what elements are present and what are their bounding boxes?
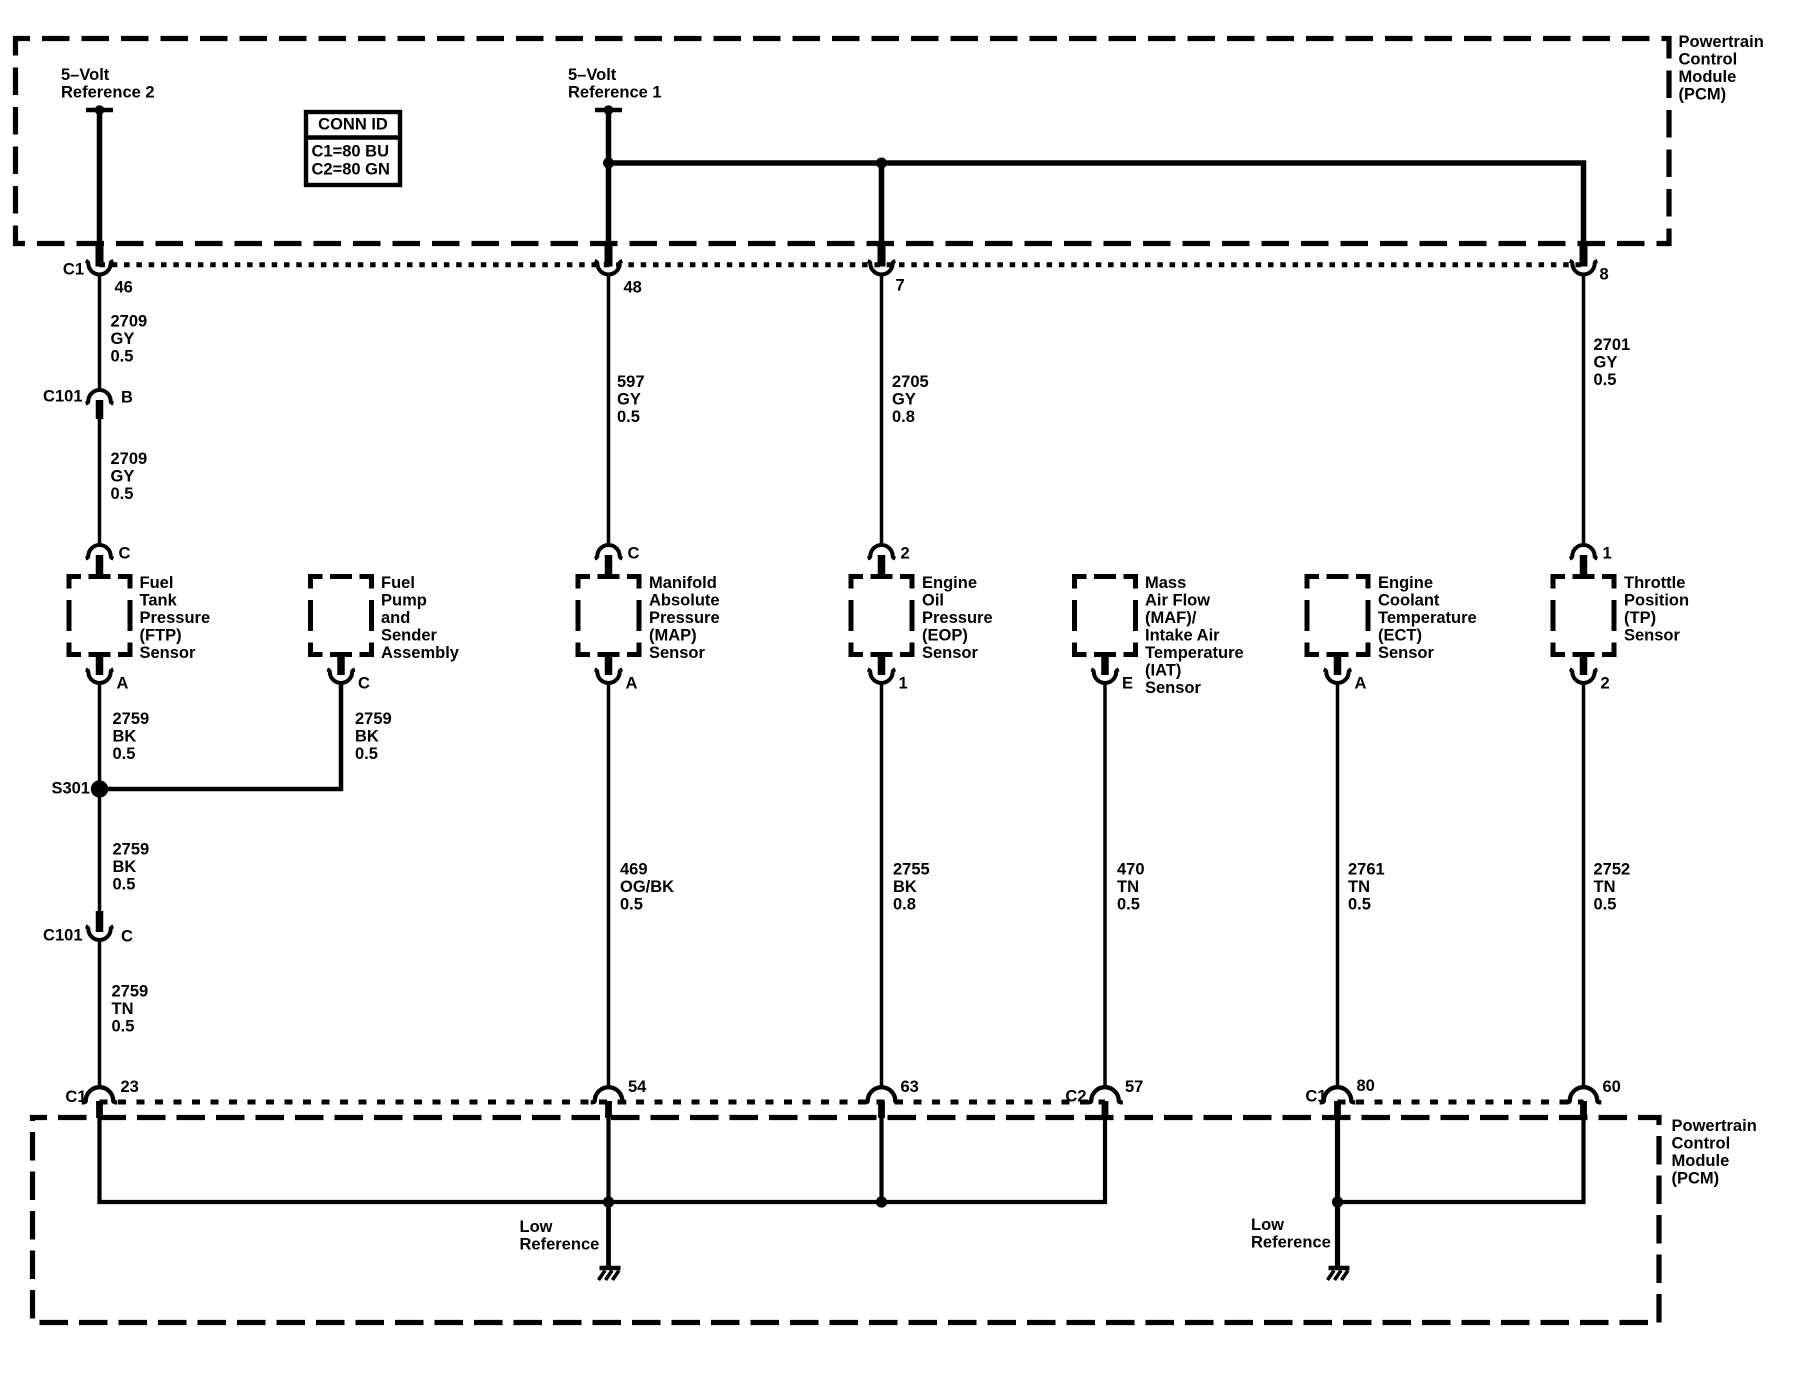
label wire 2709 GY 0.5 upper bbox=[111, 313, 148, 366]
label C1 connector top bbox=[63, 261, 84, 279]
svg-text:46: 46 bbox=[115, 279, 133, 297]
connector C1 pin 8 bbox=[1570, 245, 1609, 284]
svg-text:A: A bbox=[626, 675, 638, 693]
label wire 2759 BK 0.5 right bbox=[355, 710, 392, 763]
svg-text:2755: 2755 bbox=[893, 861, 930, 879]
label wire 2709 GY 0.5 lower bbox=[111, 450, 148, 503]
svg-text:Sensor: Sensor bbox=[140, 644, 197, 662]
svg-text:Reference 1: Reference 1 bbox=[568, 84, 662, 102]
svg-text:Module: Module bbox=[1679, 68, 1737, 86]
sensor TP top connector pin 1 bbox=[1570, 545, 1612, 579]
svg-text:2709: 2709 bbox=[111, 450, 148, 468]
svg-text:Air Flow: Air Flow bbox=[1145, 592, 1210, 610]
svg-text:GY: GY bbox=[892, 391, 916, 409]
sensor FTP bottom connector pin A bbox=[86, 653, 129, 693]
svg-text:Powertrain: Powertrain bbox=[1672, 1117, 1757, 1135]
svg-text:Sensor: Sensor bbox=[1145, 679, 1202, 697]
wire 470 TN from MAF E to pin 57 bbox=[1103, 683, 1107, 1088]
wire pin 80 drop thick bbox=[1335, 1117, 1340, 1202]
sensor EOP top connector pin 2 bbox=[868, 545, 910, 579]
junction dot low ref at EOP column bbox=[876, 1196, 887, 1207]
wire pin 54 drop bbox=[606, 1117, 610, 1202]
svg-text:Oil: Oil bbox=[922, 592, 944, 610]
svg-text:Temperature: Temperature bbox=[1378, 609, 1477, 627]
svg-text:2761: 2761 bbox=[1348, 861, 1385, 879]
wire 469 OG/BK from MAP A to pin 54 bbox=[607, 683, 611, 1088]
svg-text:(EOP): (EOP) bbox=[922, 627, 968, 645]
svg-text:Module: Module bbox=[1672, 1152, 1730, 1170]
svg-text:C1: C1 bbox=[63, 261, 84, 279]
svg-text:S301: S301 bbox=[51, 780, 90, 798]
svg-text:C: C bbox=[121, 928, 133, 946]
wire low reference bus right bbox=[1338, 1117, 1584, 1202]
connector pin 57 bbox=[1087, 1078, 1143, 1118]
sensor MAP bottom connector pin A bbox=[595, 653, 638, 693]
svg-text:Engine: Engine bbox=[1378, 574, 1433, 592]
label wire 470 TN 0.5 bbox=[1117, 861, 1145, 914]
svg-text:C2=80 GN: C2=80 GN bbox=[312, 161, 390, 179]
sensor FTP top connector pin C bbox=[86, 545, 131, 579]
svg-text:597: 597 bbox=[617, 373, 645, 391]
wire 2709 GY from pin 46 to C101 B bbox=[98, 275, 102, 391]
svg-text:0.5: 0.5 bbox=[1594, 896, 1617, 914]
svg-text:0.5: 0.5 bbox=[1594, 371, 1617, 389]
label Powertrain Control Module (PCM) bottom bbox=[1672, 1117, 1757, 1188]
svg-text:0.5: 0.5 bbox=[1117, 896, 1140, 914]
svg-text:0.5: 0.5 bbox=[355, 745, 378, 763]
svg-text:C2: C2 bbox=[1065, 1088, 1086, 1106]
svg-text:(TP): (TP) bbox=[1624, 609, 1656, 627]
svg-text:(PCM): (PCM) bbox=[1672, 1170, 1720, 1188]
svg-text:BK: BK bbox=[355, 728, 379, 746]
svg-text:Assembly: Assembly bbox=[381, 644, 460, 662]
svg-text:Sensor: Sensor bbox=[922, 644, 979, 662]
svg-text:0.5: 0.5 bbox=[1348, 896, 1371, 914]
svg-text:B: B bbox=[121, 389, 133, 407]
svg-text:Control: Control bbox=[1679, 51, 1738, 69]
connector pin 63 bbox=[864, 1078, 919, 1118]
svg-text:E: E bbox=[1122, 675, 1133, 693]
svg-text:and: and bbox=[381, 609, 410, 627]
svg-text:0.8: 0.8 bbox=[892, 408, 915, 426]
sensor MAF bottom connector pin E bbox=[1091, 653, 1133, 693]
svg-text:TN: TN bbox=[1348, 878, 1370, 896]
svg-text:Sensor: Sensor bbox=[1378, 644, 1435, 662]
svg-text:OG/BK: OG/BK bbox=[620, 878, 674, 896]
PCM module bottom dashed box bbox=[33, 1118, 1660, 1323]
dotted connector row bottom left bbox=[100, 1100, 1106, 1105]
svg-text:0.5: 0.5 bbox=[617, 408, 640, 426]
CONN ID table bbox=[304, 112, 402, 185]
connector pin 80 bbox=[1320, 1077, 1375, 1118]
connector pin 54 bbox=[591, 1078, 647, 1118]
wire 2709 GY from C101 B to FTP sensor bbox=[98, 419, 102, 545]
dotted connector row bottom right bbox=[1338, 1100, 1584, 1105]
svg-text:Reference: Reference bbox=[1251, 1234, 1331, 1252]
wire 2759 TN from C101 C to pin 23 bbox=[98, 940, 102, 1088]
svg-text:Low: Low bbox=[520, 1218, 553, 1236]
label MAF IAT sensor bbox=[1145, 574, 1244, 697]
svg-text:(MAP): (MAP) bbox=[649, 627, 697, 645]
svg-text:C: C bbox=[628, 545, 640, 563]
wire branch down to pin 7 bbox=[879, 163, 885, 249]
wire 2759 BK from fuel pump C to S301 bbox=[102, 683, 342, 789]
junction dot at EOP column branch bbox=[876, 158, 887, 169]
label wire 2755 BK 0.8 bbox=[893, 861, 930, 914]
sensor Throttle Position (TP) box bbox=[1553, 577, 1614, 655]
ground right low reference bbox=[1328, 1268, 1350, 1280]
connector C101 pin C bbox=[43, 911, 133, 946]
junction dot low ref at ECT column bbox=[1332, 1196, 1343, 1207]
svg-text:2705: 2705 bbox=[892, 373, 929, 391]
svg-text:470: 470 bbox=[1117, 861, 1145, 879]
label wire 2752 TN 0.5 bbox=[1594, 861, 1631, 914]
wire low reference bus left bbox=[100, 1117, 1106, 1202]
svg-text:0.5: 0.5 bbox=[113, 876, 136, 894]
svg-text:Sensor: Sensor bbox=[1624, 627, 1681, 645]
label Low Reference left bbox=[520, 1218, 600, 1254]
svg-text:Intake Air: Intake Air bbox=[1145, 627, 1220, 645]
label Low Reference right bbox=[1251, 1216, 1331, 1252]
label wire 2759 BK 0.5 below splice bbox=[113, 841, 150, 894]
svg-text:2759: 2759 bbox=[113, 710, 150, 728]
dotted connector row C1 top bbox=[100, 262, 1584, 267]
connector C1 pin 7 bbox=[868, 245, 905, 295]
node 5-Volt Reference 2 terminal bbox=[61, 66, 155, 115]
svg-text:Powertrain: Powertrain bbox=[1679, 33, 1764, 51]
svg-text:54: 54 bbox=[628, 1078, 647, 1096]
label wire 2761 TN 0.5 bbox=[1348, 861, 1385, 914]
svg-text:BK: BK bbox=[113, 728, 137, 746]
wire 597 GY from pin 48 to MAP sensor bbox=[607, 275, 611, 546]
svg-text:(FTP): (FTP) bbox=[140, 627, 182, 645]
wire ground stub left bbox=[606, 1202, 611, 1266]
svg-text:Pressure: Pressure bbox=[922, 609, 993, 627]
svg-text:(MAF)/: (MAF)/ bbox=[1145, 609, 1197, 627]
connector pin 60 bbox=[1566, 1078, 1621, 1118]
label wire 2705 GY 0.8 bbox=[892, 373, 929, 426]
wire 2701 GY from pin 8 to TP sensor bbox=[1582, 275, 1586, 546]
svg-text:469: 469 bbox=[620, 861, 648, 879]
svg-text:80: 80 bbox=[1357, 1077, 1375, 1095]
svg-text:Tank: Tank bbox=[140, 592, 178, 610]
svg-text:60: 60 bbox=[1603, 1078, 1621, 1096]
svg-text:Reference: Reference bbox=[520, 1236, 600, 1254]
svg-text:BK: BK bbox=[113, 858, 137, 876]
svg-text:Manifold: Manifold bbox=[649, 574, 717, 592]
label C1 connector bottom bbox=[65, 1088, 86, 1106]
svg-text:5–Volt: 5–Volt bbox=[61, 66, 110, 84]
wire 2761 TN from ECT A to pin 80 bbox=[1336, 683, 1340, 1088]
svg-text:Temperature: Temperature bbox=[1145, 644, 1244, 662]
node 5-Volt Reference 1 terminal bbox=[568, 66, 662, 115]
svg-text:C101: C101 bbox=[43, 388, 82, 406]
svg-text:Sensor: Sensor bbox=[649, 644, 706, 662]
label wire 469 OG/BK 0.5 bbox=[620, 861, 674, 914]
junction dot at MAP column branch bbox=[603, 158, 614, 169]
svg-text:C: C bbox=[358, 675, 370, 693]
label Fuel Pump and Sender Assembly bbox=[381, 574, 460, 662]
svg-text:Sender: Sender bbox=[381, 627, 438, 645]
svg-text:0.5: 0.5 bbox=[112, 1018, 135, 1036]
svg-text:2759: 2759 bbox=[355, 710, 392, 728]
svg-text:2: 2 bbox=[1601, 675, 1610, 693]
svg-text:2701: 2701 bbox=[1594, 336, 1631, 354]
svg-text:C: C bbox=[119, 545, 131, 563]
sensor Mass Air Flow / Intake Air Temperature box bbox=[1075, 577, 1136, 655]
svg-text:TN: TN bbox=[112, 1000, 134, 1018]
svg-text:2759: 2759 bbox=[112, 983, 149, 1001]
splice S301 bbox=[51, 780, 108, 798]
connector C1 pin 48 bbox=[595, 245, 642, 297]
wire 2705 GY from pin 7 to EOP sensor bbox=[880, 275, 884, 546]
label Powertrain Control Module (PCM) top bbox=[1679, 33, 1764, 104]
svg-text:C101: C101 bbox=[43, 927, 82, 945]
svg-text:Engine: Engine bbox=[922, 574, 977, 592]
svg-text:BK: BK bbox=[893, 878, 917, 896]
label wire 2759 TN 0.5 bbox=[112, 983, 149, 1036]
wire 5-Volt Reference 1 branch to pin 8 bbox=[609, 163, 1584, 249]
svg-text:GY: GY bbox=[111, 468, 135, 486]
connector pin 23 bbox=[82, 1078, 139, 1118]
svg-text:A: A bbox=[1355, 675, 1367, 693]
svg-text:Coolant: Coolant bbox=[1378, 592, 1440, 610]
svg-text:TN: TN bbox=[1594, 878, 1616, 896]
wire 2759 BK from FTP A to S301 bbox=[98, 683, 102, 789]
svg-text:0.5: 0.5 bbox=[113, 745, 136, 763]
label MAP sensor bbox=[649, 574, 720, 662]
svg-text:Pump: Pump bbox=[381, 592, 427, 610]
svg-text:0.5: 0.5 bbox=[620, 896, 643, 914]
label C1 connector bottom right bbox=[1305, 1088, 1326, 1106]
svg-text:Mass: Mass bbox=[1145, 574, 1186, 592]
label EOP sensor bbox=[922, 574, 993, 662]
connector C1 pin 46 bbox=[86, 245, 133, 297]
svg-text:0.8: 0.8 bbox=[893, 896, 916, 914]
wire 5-Volt Reference 2 vertical bbox=[97, 110, 103, 249]
svg-text:2752: 2752 bbox=[1594, 861, 1631, 879]
svg-text:GY: GY bbox=[1594, 354, 1618, 372]
svg-text:2709: 2709 bbox=[111, 313, 148, 331]
component Fuel Pump and Sender Assembly box bbox=[311, 577, 372, 655]
svg-text:7: 7 bbox=[896, 277, 905, 295]
svg-text:5–Volt: 5–Volt bbox=[568, 66, 617, 84]
label wire 2701 GY 0.5 bbox=[1594, 336, 1631, 389]
svg-text:CONN ID: CONN ID bbox=[318, 116, 388, 134]
svg-text:Reference 2: Reference 2 bbox=[61, 84, 155, 102]
label wire 597 GY 0.5 bbox=[617, 373, 645, 426]
label FTP sensor bbox=[140, 574, 211, 662]
svg-text:2759: 2759 bbox=[113, 841, 150, 859]
svg-text:Low: Low bbox=[1251, 1216, 1284, 1234]
svg-text:Pressure: Pressure bbox=[140, 609, 211, 627]
connector C101 pin B bbox=[43, 388, 133, 420]
label wire 2759 BK 0.5 left bbox=[113, 710, 150, 763]
svg-text:Fuel: Fuel bbox=[381, 574, 415, 592]
sensor MAP top connector pin C bbox=[595, 545, 640, 579]
svg-text:2: 2 bbox=[901, 545, 910, 563]
svg-text:GY: GY bbox=[617, 391, 641, 409]
sensor ECT bottom connector pin A bbox=[1324, 653, 1367, 693]
sensor Fuel Tank Pressure (FTP) box bbox=[69, 577, 130, 655]
svg-text:Fuel: Fuel bbox=[140, 574, 174, 592]
sensor Engine Coolant Temperature (ECT) box bbox=[1307, 577, 1368, 655]
wire 2752 TN from TP 2 to pin 60 bbox=[1582, 683, 1586, 1088]
fuel pump bottom connector pin C bbox=[327, 653, 370, 693]
svg-text:63: 63 bbox=[901, 1078, 919, 1096]
wire 5-Volt Reference 1 vertical bbox=[606, 110, 612, 249]
svg-text:TN: TN bbox=[1117, 878, 1139, 896]
svg-text:(ECT): (ECT) bbox=[1378, 627, 1422, 645]
label ECT sensor bbox=[1378, 574, 1477, 662]
junction dot low ref at MAP column bbox=[603, 1196, 614, 1207]
sensor Manifold Absolute Pressure (MAP) box bbox=[578, 577, 639, 655]
svg-text:(IAT): (IAT) bbox=[1145, 662, 1181, 680]
svg-text:1: 1 bbox=[1603, 545, 1612, 563]
svg-text:0.5: 0.5 bbox=[111, 348, 134, 366]
sensor EOP bottom connector pin 1 bbox=[868, 653, 908, 693]
svg-text:23: 23 bbox=[121, 1078, 139, 1096]
svg-text:57: 57 bbox=[1125, 1078, 1143, 1096]
svg-text:(PCM): (PCM) bbox=[1679, 86, 1727, 104]
PCM module top dashed box bbox=[16, 39, 1670, 244]
wire 2759 BK from S301 to C101 C bbox=[98, 789, 102, 912]
svg-text:GY: GY bbox=[111, 330, 135, 348]
svg-text:Absolute: Absolute bbox=[649, 592, 720, 610]
svg-text:Control: Control bbox=[1672, 1135, 1731, 1153]
svg-text:Pressure: Pressure bbox=[649, 609, 720, 627]
label TP sensor bbox=[1624, 574, 1689, 645]
svg-text:C1=80 BU: C1=80 BU bbox=[312, 143, 390, 161]
wire ground stub right bbox=[1335, 1202, 1340, 1266]
svg-text:0.5: 0.5 bbox=[111, 485, 134, 503]
wire pin 63 drop bbox=[879, 1117, 883, 1202]
svg-text:48: 48 bbox=[624, 279, 642, 297]
ground left low reference bbox=[599, 1268, 621, 1280]
svg-text:A: A bbox=[117, 675, 129, 693]
svg-text:Throttle: Throttle bbox=[1624, 574, 1685, 592]
wire 2755 BK from EOP 1 to pin 63 bbox=[880, 683, 884, 1088]
sensor Engine Oil Pressure (EOP) box bbox=[851, 577, 912, 655]
svg-text:1: 1 bbox=[899, 675, 908, 693]
label C2 connector bottom bbox=[1065, 1088, 1086, 1106]
svg-text:Position: Position bbox=[1624, 592, 1689, 610]
svg-text:8: 8 bbox=[1600, 266, 1609, 284]
sensor TP bottom connector pin 2 bbox=[1570, 653, 1610, 693]
